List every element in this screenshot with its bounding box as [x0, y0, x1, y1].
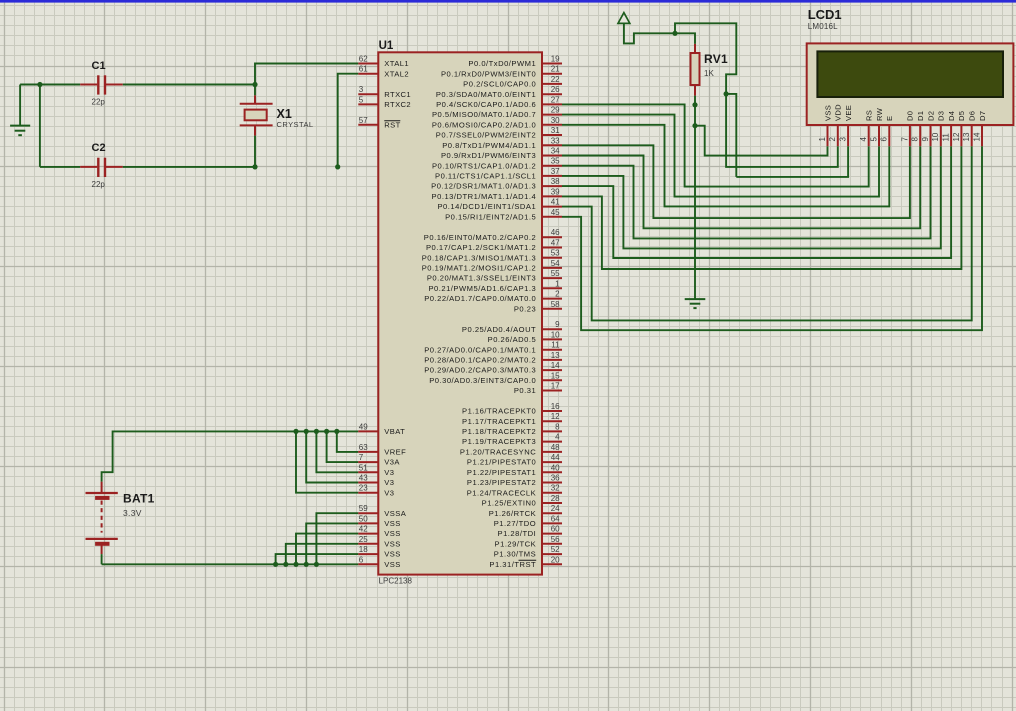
svg-text:P0.18/CAP1.3/MISO1/MAT1.3: P0.18/CAP1.3/MISO1/MAT1.3: [422, 253, 537, 262]
U1 pin 6 (VSS) left stub: [358, 563, 378, 565]
svg-text:9: 9: [921, 137, 930, 142]
LCD1 pin 10 (D3) stub: [940, 125, 942, 146]
wire C1 right to crystal-top node: [123, 84, 255, 86]
U1 pin 31 (P0.7/SSEL0/PWM2/EINT2) right stub: [542, 134, 562, 136]
svg-text:56: 56: [551, 535, 560, 544]
svg-text:P0.29/AD0.2/CAP0.3/MAT0.3: P0.29/AD0.2/CAP0.3/MAT0.3: [424, 366, 536, 375]
U1 pin 27 (P0.4/SCK0/CAP0.1/AD0.6) right stub: [542, 103, 562, 105]
svg-text:31: 31: [551, 126, 560, 135]
svg-text:22p: 22p: [92, 98, 106, 107]
blue border line top: [0, 0, 1016, 3]
svg-text:32: 32: [551, 484, 560, 493]
svg-text:D4: D4: [947, 111, 956, 121]
U1 pin 1 (P0.21/PWM5/AD1.6/CAP1.3) right stub: [542, 287, 562, 289]
svg-text:20: 20: [551, 555, 560, 564]
svg-text:61: 61: [359, 65, 368, 74]
svg-text:16: 16: [551, 402, 560, 411]
U1 pin 43 (V3) left stub: [358, 482, 378, 484]
svg-text:V3A: V3A: [384, 458, 400, 467]
svg-text:P0.13/DTR1/MAT1.1/AD1.4: P0.13/DTR1/MAT1.1/AD1.4: [432, 192, 537, 201]
svg-text:V3: V3: [384, 468, 394, 477]
svg-text:50: 50: [359, 514, 368, 523]
wire power arrow to RV1 top: [624, 23, 695, 44]
node V3 pin43 junction: [304, 429, 309, 434]
svg-text:VSS: VSS: [384, 550, 400, 559]
svg-text:D6: D6: [968, 111, 977, 121]
svg-text:VSS: VSS: [384, 539, 400, 548]
svg-text:10: 10: [551, 330, 560, 339]
wire net D3 (U1 row to LCD pin 10): [562, 146, 941, 248]
svg-text:57: 57: [359, 116, 368, 125]
svg-text:P0.20/MAT1.3/SSEL1/EINT3: P0.20/MAT1.3/SSEL1/EINT3: [427, 274, 536, 283]
LCD LCD1 body (LM016L): [807, 43, 1014, 125]
U1 pin 23 (V3) left stub: [358, 492, 378, 494]
battery BAT1: [101, 482, 103, 493]
node VREF branch junction: [334, 429, 339, 434]
U1 pin 49 (VBAT) left stub: [358, 430, 378, 432]
svg-text:CRYSTAL: CRYSTAL: [277, 120, 314, 129]
U1 pin 17 (P0.31) right stub: [542, 390, 562, 392]
U1 pin 3 (RTXC1) left stub: [358, 93, 378, 95]
svg-text:45: 45: [551, 208, 560, 217]
svg-text:P0.5/MISO0/MAT0.1/AD0.7: P0.5/MISO0/MAT0.1/AD0.7: [432, 110, 536, 119]
U1 pin 15 (P0.30/AD0.3/EINT3/CAP0.0) right stub: [542, 379, 562, 381]
svg-text:P0.1/RxD0/PWM3/EINT0: P0.1/RxD0/PWM3/EINT0: [441, 69, 536, 78]
svg-text:29: 29: [551, 106, 560, 115]
svg-text:52: 52: [551, 545, 560, 554]
RST overline: [384, 120, 400, 122]
svg-text:1: 1: [818, 137, 827, 142]
wire VSS branch (pin42): [296, 534, 358, 565]
svg-text:64: 64: [551, 514, 560, 523]
svg-text:49: 49: [359, 422, 368, 431]
svg-text:54: 54: [551, 259, 560, 268]
power symbol (up arrow): [618, 13, 630, 24]
svg-text:P0.25/AD0.4/AOUT: P0.25/AD0.4/AOUT: [462, 325, 536, 334]
svg-text:VDD: VDD: [834, 104, 843, 121]
wire VSS branch (pin18): [276, 554, 359, 564]
svg-text:4: 4: [859, 137, 868, 142]
node RV1-gnd / LCD VSS junction: [692, 123, 697, 128]
svg-text:VSS: VSS: [384, 519, 400, 528]
wire XTAL1 (U1 pin62) to crystal top: [255, 64, 358, 85]
svg-text:RV1: RV1: [704, 52, 728, 66]
svg-text:P1.26/RTCK: P1.26/RTCK: [489, 509, 537, 518]
U1 pin 64 (P1.27/TDO) right stub: [542, 522, 562, 524]
wire branch down to C2 wire: [39, 85, 41, 167]
svg-text:LCD1: LCD1: [808, 7, 842, 22]
svg-text:12: 12: [952, 132, 961, 141]
svg-text:3.3V: 3.3V: [123, 508, 142, 518]
U1 pin 4 (P1.19/TRACEPKT3) right stub: [542, 441, 562, 443]
LCD1 pin 5 (RW) stub: [878, 125, 880, 146]
svg-text:P0.11/CTS1/CAP1.1/SCL1: P0.11/CTS1/CAP1.1/SCL1: [435, 172, 536, 181]
U1 pin 42 (VSS) left stub: [358, 533, 378, 535]
svg-text:59: 59: [359, 504, 368, 513]
wire BAT1 minus down to VSS rail: [101, 554, 103, 564]
node crystal bottom junction: [252, 164, 257, 169]
svg-text:VSS: VSS: [384, 560, 400, 569]
svg-text:XTAL2: XTAL2: [384, 69, 409, 78]
svg-text:60: 60: [551, 525, 560, 534]
svg-text:6: 6: [880, 137, 889, 142]
svg-text:P0.10/RTS1/CAP1.0/AD1.2: P0.10/RTS1/CAP1.0/AD1.2: [432, 161, 536, 170]
svg-text:7: 7: [359, 453, 364, 462]
svg-text:18: 18: [359, 545, 368, 554]
svg-text:27: 27: [551, 95, 560, 104]
LCD1 pin 7 (D0) stub: [909, 125, 911, 146]
U1 pin 7 (V3A) left stub: [358, 461, 378, 463]
U1 pin 58 (P0.23) right stub: [542, 308, 562, 310]
node VSS pin42 junction: [293, 562, 298, 567]
svg-text:34: 34: [551, 147, 560, 156]
wire LCD VSS (pin1) to gnd net: [695, 126, 828, 156]
svg-text:19: 19: [551, 55, 560, 64]
wire net D6 (U1 row to LCD pin 13): [562, 146, 972, 320]
svg-text:28: 28: [551, 494, 560, 503]
svg-text:LPC2138: LPC2138: [379, 577, 413, 586]
svg-text:1K: 1K: [704, 69, 714, 78]
svg-text:13: 13: [551, 351, 560, 360]
U1 pin 16 (P1.16/TRACEPKT0) right stub: [542, 410, 562, 412]
svg-text:P1.25/EXTIN0: P1.25/EXTIN0: [482, 499, 537, 508]
svg-text:P0.15/RI1/EINT2/AD1.5: P0.15/RI1/EINT2/AD1.5: [445, 212, 536, 221]
op-amp U1 body (LPC2138 MCU): [378, 52, 542, 574]
U1 pin 25 (VSS) left stub: [358, 543, 378, 545]
LCD screen: [817, 51, 1003, 97]
U1 pin 12 (P1.17/TRACEPKT1) right stub: [542, 420, 562, 422]
svg-text:P1.17/TRACEPKT1: P1.17/TRACEPKT1: [462, 417, 536, 426]
svg-text:6: 6: [359, 555, 364, 564]
U1 pin 39 (P0.13/DTR1/MAT1.1/AD1.4) right stub: [542, 195, 562, 197]
U1 pin 28 (P1.25/EXTIN0) right stub: [542, 502, 562, 504]
LCD1 pin 14 (D7) stub: [981, 125, 983, 146]
svg-text:P0.9/RxD1/PWM6/EINT3: P0.9/RxD1/PWM6/EINT3: [441, 151, 536, 160]
U1 pin 46 (P0.16/EINT0/MAT0.2/CAP0.2) right stub: [542, 236, 562, 238]
svg-text:P0.26/AD0.5: P0.26/AD0.5: [488, 335, 537, 344]
U1 pin 47 (P0.17/CAP1.2/SCK1/MAT1.2) right stub: [542, 247, 562, 249]
svg-text:E: E: [885, 116, 894, 121]
svg-text:P0.3/SDA0/MAT0.0/EINT1: P0.3/SDA0/MAT0.0/EINT1: [436, 90, 536, 99]
node V3 pin23 junction: [293, 429, 298, 434]
svg-text:RS: RS: [865, 110, 874, 121]
U1 pin 8 (P1.18/TRACEPKT2) right stub: [542, 430, 562, 432]
U1 pin 14 (P0.29/AD0.2/CAP0.3/MAT0.3) right stub: [542, 369, 562, 371]
LCD1 pin 8 (D1) stub: [919, 125, 921, 146]
wire net D5 (U1 row to LCD pin 12): [562, 146, 961, 269]
svg-text:9: 9: [555, 320, 560, 329]
wire power branch to wiper feed: [675, 23, 736, 94]
LCD1 pin 11 (D4) stub: [950, 125, 952, 146]
svg-text:33: 33: [551, 136, 560, 145]
node VSS pin50 junction: [304, 562, 309, 567]
svg-text:LM016L: LM016L: [808, 22, 838, 31]
svg-text:1: 1: [555, 279, 560, 288]
wire net D7 (U1 row to LCD pin 14): [562, 146, 982, 330]
svg-text:P1.22/PIPESTAT1: P1.22/PIPESTAT1: [467, 468, 536, 477]
node junction at gnd/C2 branch: [37, 82, 42, 87]
U1 pin 22 (P0.2/SCL0/CAP0.0) right stub: [542, 83, 562, 85]
capacitor C2: [80, 166, 97, 168]
wire crystal bottom to C2 net: [254, 136, 256, 167]
wire V3 branch (pin23): [296, 431, 358, 492]
U1 pin 24 (P1.26/RTCK) right stub: [542, 512, 562, 514]
svg-text:VSSA: VSSA: [384, 509, 406, 518]
svg-text:3: 3: [359, 85, 364, 94]
wire V3 branch (pin51): [316, 431, 358, 472]
svg-text:7: 7: [900, 137, 909, 142]
svg-text:26: 26: [551, 85, 560, 94]
LCD1 pin 9 (D2) stub: [930, 125, 932, 146]
svg-text:25: 25: [359, 535, 368, 544]
svg-text:P1.16/TRACEPKT0: P1.16/TRACEPKT0: [462, 407, 536, 416]
U1 pin 62 (XTAL1) left stub: [358, 63, 378, 65]
node XTAL2/C2 junction: [335, 164, 340, 169]
svg-text:P0.0/TxD0/PWM1: P0.0/TxD0/PWM1: [468, 59, 536, 68]
node V3A branch junction: [324, 429, 329, 434]
U1 pin 9 (P0.25/AD0.4/AOUT) right stub: [542, 328, 562, 330]
potentiometer RV1: [694, 44, 696, 53]
svg-text:14: 14: [551, 361, 560, 370]
U1 pin 21 (P0.1/RxD0/PWM3/EINT0) right stub: [542, 73, 562, 75]
U1 pin 55 (P0.20/MAT1.3/SSEL1/EINT3) right stub: [542, 277, 562, 279]
svg-text:47: 47: [551, 239, 560, 248]
svg-text:C1: C1: [92, 60, 106, 72]
svg-text:3: 3: [839, 137, 848, 142]
U1 pin 37 (P0.11/CTS1/CAP1.1/SCL1) right stub: [542, 175, 562, 177]
wire net D2 (U1 row to LCD pin 9): [562, 146, 931, 238]
wire VREF branch: [337, 431, 359, 452]
node crystal top junction: [252, 82, 257, 87]
LCD1 pin 2 (VDD) stub: [837, 125, 839, 146]
svg-text:43: 43: [359, 474, 368, 483]
U1 pin 29 (P0.5/MISO0/MAT0.1/AD0.7) right stub: [542, 114, 562, 116]
wire V3A branch: [327, 431, 359, 462]
svg-text:41: 41: [551, 198, 560, 207]
wire net D1 (U1 row to LCD pin 8): [562, 146, 920, 228]
svg-text:P1.29/TCK: P1.29/TCK: [495, 539, 537, 548]
U1 pin 56 (P1.29/TCK) right stub: [542, 543, 562, 545]
U1 pin 2 (P0.22/AD1.7/CAP0.0/MAT0.0) right stub: [542, 298, 562, 300]
U1 pin 30 (P0.6/MOSI0/CAP0.2/AD1.0) right stub: [542, 124, 562, 126]
svg-text:8: 8: [555, 422, 560, 431]
svg-text:8: 8: [911, 137, 920, 142]
svg-text:P0.7/SSEL0/PWM2/EINT2: P0.7/SSEL0/PWM2/EINT2: [436, 131, 536, 140]
U1 pin 40 (P1.22/PIPESTAT1) right stub: [542, 471, 562, 473]
svg-text:24: 24: [551, 504, 560, 513]
LCD1 pin 3 (VEE) stub: [847, 125, 849, 146]
svg-text:22: 22: [551, 75, 560, 84]
svg-text:U1: U1: [379, 40, 394, 52]
svg-text:VSS: VSS: [823, 105, 832, 121]
svg-text:P0.23: P0.23: [514, 304, 536, 313]
svg-text:RST: RST: [384, 120, 400, 129]
svg-text:P0.14/DCD1/EINT1/SDA1: P0.14/DCD1/EINT1/SDA1: [437, 202, 536, 211]
svg-text:38: 38: [551, 177, 560, 186]
wire V3 branch (pin43): [306, 431, 358, 482]
svg-text:P0.16/EINT0/MAT0.2/CAP0.2: P0.16/EINT0/MAT0.2/CAP0.2: [424, 233, 536, 242]
U1 pin 52 (P1.30/TMS) right stub: [542, 553, 562, 555]
svg-text:RW: RW: [875, 107, 884, 121]
svg-text:P0.4/SCK0/CAP0.1/AD0.6: P0.4/SCK0/CAP0.1/AD0.6: [436, 100, 536, 109]
wire BAT1 plus to VBAT rail: [102, 431, 359, 481]
U1 pin 59 (VSSA) left stub: [358, 512, 378, 514]
svg-text:RTXC1: RTXC1: [384, 90, 411, 99]
wire net RW (U1 row to LCD pin 5): [562, 115, 879, 197]
wire LCD VEE (pin3): [736, 146, 848, 177]
node V3 pin51 junction: [314, 429, 319, 434]
U1 pin 26 (P0.3/SDA0/MAT0.0/EINT1) right stub: [542, 93, 562, 95]
svg-text:15: 15: [551, 371, 560, 380]
wire VSS rail to U1 VSS pin6: [102, 563, 359, 565]
node VSS pin25 junction: [283, 562, 288, 567]
ground symbol (crystal circuit): [19, 85, 21, 126]
LCD1 pin 1 (VSS) stub: [827, 125, 829, 146]
svg-text:P1.18/TRACEPKT2: P1.18/TRACEPKT2: [462, 427, 536, 436]
svg-text:P0.12/DSR1/MAT1.0/AD1.3: P0.12/DSR1/MAT1.0/AD1.3: [431, 182, 536, 191]
TRST overline: [519, 559, 537, 561]
svg-text:D5: D5: [957, 111, 966, 121]
svg-text:D1: D1: [916, 111, 925, 121]
svg-text:2: 2: [555, 290, 560, 299]
svg-text:RTXC2: RTXC2: [384, 100, 411, 109]
svg-text:P1.21/PIPESTAT0: P1.21/PIPESTAT0: [467, 458, 536, 467]
LCD1 pin 12 (D5) stub: [960, 125, 962, 146]
wire VSS branch (pin50): [306, 523, 358, 564]
svg-text:VREF: VREF: [384, 448, 406, 457]
svg-text:P1.27/TDO: P1.27/TDO: [494, 519, 536, 528]
svg-text:P0.17/CAP1.2/SCK1/MAT1.2: P0.17/CAP1.2/SCK1/MAT1.2: [426, 243, 536, 252]
wire gnd to C1 left: [20, 84, 80, 86]
svg-text:35: 35: [551, 157, 560, 166]
svg-text:62: 62: [359, 55, 368, 64]
svg-text:37: 37: [551, 167, 560, 176]
U1 pin 60 (P1.28/TDI) right stub: [542, 533, 562, 535]
wire VSSA branch: [316, 513, 358, 564]
U1 pin 51 (V3) left stub: [358, 471, 378, 473]
svg-text:58: 58: [551, 300, 560, 309]
U1 pin 13 (P0.28/AD0.1/CAP0.2/MAT0.2) right stub: [542, 359, 562, 361]
U1 pin 41 (P0.14/DCD1/EINT1/SDA1) right stub: [542, 206, 562, 208]
LCD1 pin 13 (D6) stub: [971, 125, 973, 146]
svg-text:D3: D3: [937, 111, 946, 121]
svg-text:30: 30: [551, 116, 560, 125]
wire C2 right to crystal-bottom node: [123, 166, 255, 168]
svg-text:VBAT: VBAT: [384, 427, 405, 436]
svg-text:13: 13: [962, 132, 971, 141]
svg-text:P1.28/TDI: P1.28/TDI: [498, 529, 537, 538]
svg-text:P0.21/PWM5/AD1.6/CAP1.3: P0.21/PWM5/AD1.6/CAP1.3: [428, 284, 536, 293]
U1 pin 36 (P1.23/PIPESTAT2) right stub: [542, 482, 562, 484]
node VSS pin18 junction: [273, 562, 278, 567]
node on RV1-gnd line (upper): [692, 102, 697, 107]
svg-text:21: 21: [551, 65, 560, 74]
svg-text:P1.31/TRST: P1.31/TRST: [489, 560, 536, 569]
U1 pin 5 (RTXC2) left stub: [358, 103, 378, 105]
svg-text:22p: 22p: [92, 180, 106, 189]
U1 pin 19 (P0.0/TxD0/PWM1) right stub: [542, 63, 562, 65]
crystal X1: [240, 103, 273, 105]
svg-text:P1.19/TRACEPKT3: P1.19/TRACEPKT3: [462, 437, 536, 446]
svg-text:V3: V3: [384, 478, 394, 487]
svg-text:P0.2/SCL0/CAP0.0: P0.2/SCL0/CAP0.0: [463, 80, 536, 89]
U1 pin 10 (P0.26/AD0.5) right stub: [542, 338, 562, 340]
svg-text:P0.19/MAT1.2/MOSI1/CAP1.2: P0.19/MAT1.2/MOSI1/CAP1.2: [422, 264, 537, 273]
svg-text:XTAL1: XTAL1: [384, 59, 409, 68]
U1 pin 38 (P0.12/DSR1/MAT1.0/AD1.3) right stub: [542, 185, 562, 187]
wire XTAL2 (U1 pin61) down to C2 net: [338, 74, 359, 167]
svg-text:D7: D7: [978, 111, 987, 121]
svg-text:53: 53: [551, 249, 560, 258]
U1 pin 18 (VSS) left stub: [358, 553, 378, 555]
svg-text:5: 5: [869, 137, 878, 142]
svg-text:P1.20/TRACESYNC: P1.20/TRACESYNC: [460, 448, 536, 457]
svg-text:2: 2: [828, 137, 837, 142]
U1 pin 50 (VSS) left stub: [358, 522, 378, 524]
svg-text:BAT1: BAT1: [123, 491, 155, 505]
U1 pin 33 (P0.8/TxD1/PWM4/AD1.1) right stub: [542, 144, 562, 146]
U1 pin 11 (P0.27/AD0.0/CAP0.1/MAT0.1) right stub: [542, 349, 562, 351]
capacitor C1: [80, 84, 97, 86]
LCD1 pin 6 (E) stub: [888, 125, 890, 146]
U1 pin 32 (P1.24/TRACECLK) right stub: [542, 492, 562, 494]
wire crystal top lead green segment: [254, 85, 256, 96]
svg-text:36: 36: [551, 474, 560, 483]
svg-text:17: 17: [551, 382, 560, 391]
svg-text:P0.31: P0.31: [514, 386, 536, 395]
svg-text:D0: D0: [906, 111, 915, 121]
wire net D0 (U1 row to LCD pin 7): [562, 145, 910, 218]
wire RV1 bottom to ground: [694, 96, 696, 300]
U1 pin 34 (P0.9/RxD1/PWM6/EINT3) right stub: [542, 155, 562, 157]
U1 pin 53 (P0.18/CAP1.3/MISO1/MAT1.3) right stub: [542, 257, 562, 259]
U1 pin 20 (P1.31/TRST) right stub: [542, 563, 562, 565]
svg-text:51: 51: [359, 463, 368, 472]
svg-text:4: 4: [555, 433, 560, 442]
U1 pin 54 (P0.19/MAT1.2/MOSI1/CAP1.2) right stub: [542, 267, 562, 269]
svg-text:10: 10: [931, 132, 940, 141]
svg-text:D2: D2: [926, 111, 935, 121]
wire net D4 (U1 row to LCD pin 11): [562, 146, 951, 258]
svg-text:V3: V3: [384, 488, 394, 497]
svg-text:39: 39: [551, 187, 560, 196]
svg-text:14: 14: [972, 132, 981, 141]
svg-text:48: 48: [551, 443, 560, 452]
U1 pin 63 (VREF) left stub: [358, 451, 378, 453]
svg-text:P0.30/AD0.3/EINT3/CAP0.0: P0.30/AD0.3/EINT3/CAP0.0: [429, 376, 536, 385]
svg-text:23: 23: [359, 484, 368, 493]
svg-text:P0.27/AD0.0/CAP0.1/MAT0.1: P0.27/AD0.0/CAP0.1/MAT0.1: [424, 345, 536, 354]
wire VSS branch (pin25): [286, 544, 359, 565]
svg-text:P0.28/AD0.1/CAP0.2/MAT0.2: P0.28/AD0.1/CAP0.2/MAT0.2: [424, 356, 536, 365]
svg-text:P1.30/TMS: P1.30/TMS: [494, 550, 536, 559]
svg-text:C2: C2: [92, 142, 106, 154]
svg-text:5: 5: [359, 95, 364, 104]
svg-text:P0.22/AD1.7/CAP0.0/MAT0.0: P0.22/AD1.7/CAP0.0/MAT0.0: [424, 294, 536, 303]
svg-text:46: 46: [551, 228, 560, 237]
U1 pin 61 (XTAL2) left stub: [358, 73, 378, 75]
ground symbol (RV1): [685, 298, 706, 300]
svg-text:44: 44: [551, 453, 560, 462]
U1 pin 44 (P1.21/PIPESTAT0) right stub: [542, 461, 562, 463]
U1 pin 48 (P1.20/TRACESYNC) right stub: [542, 451, 562, 453]
node power junction: [672, 31, 677, 36]
wire net RS (U1 row to LCD pin 4): [562, 104, 869, 186]
U1 pin 45 (P0.15/RI1/EINT2/AD1.5) right stub: [542, 216, 562, 218]
U1 pin 57 (RST) left stub: [358, 124, 378, 126]
wire junction to VEE drop: [726, 94, 736, 177]
svg-text:VSS: VSS: [384, 529, 400, 538]
